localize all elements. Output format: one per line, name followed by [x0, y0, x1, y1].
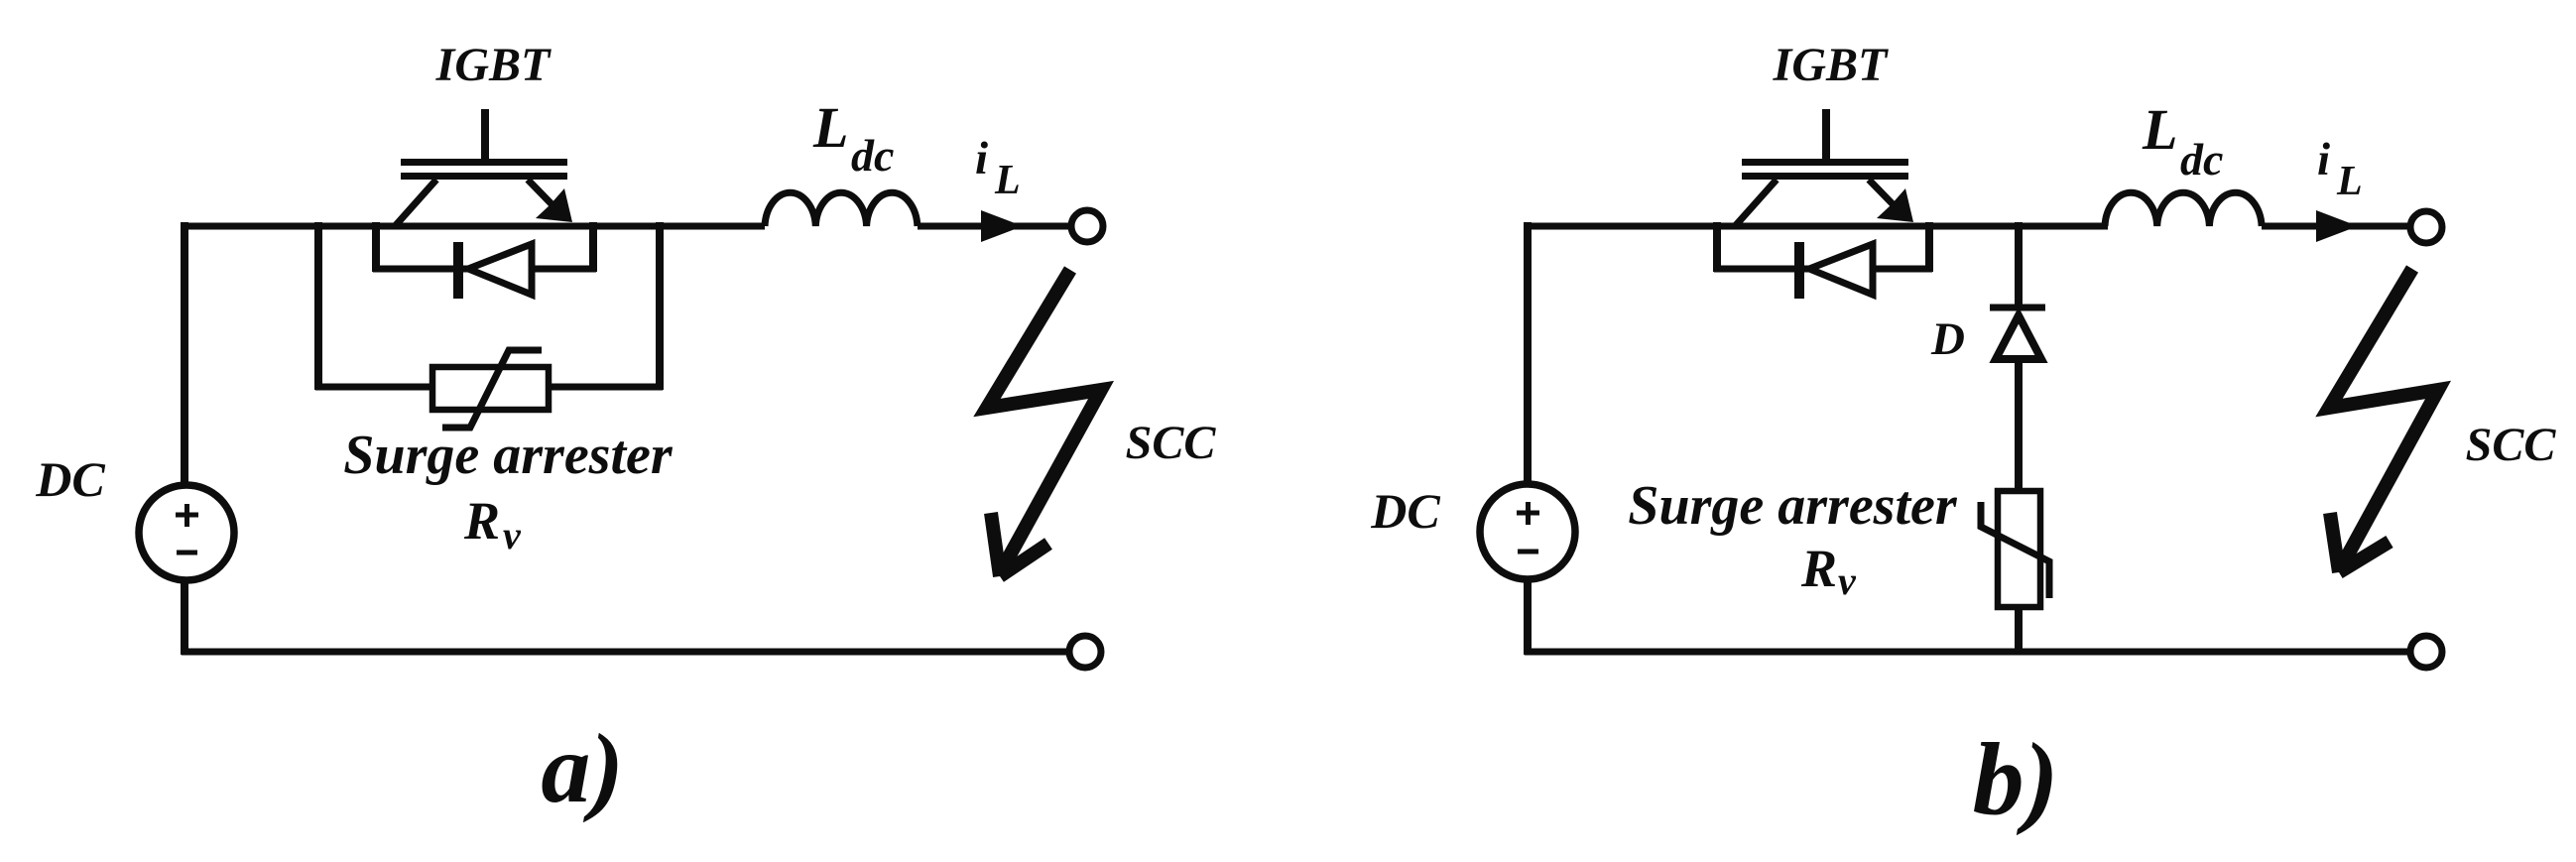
wire: left vertical from bus to DC source b	[1524, 222, 1532, 484]
svg-text:DC: DC	[35, 451, 105, 507]
svg-text:v: v	[503, 513, 522, 557]
wire: left vertical from bus to DC source a	[181, 222, 188, 485]
IGBT Q2 emitter arrowhead b	[1877, 188, 1913, 222]
DC source plus sign a	[176, 504, 198, 527]
svg-text:R: R	[1800, 539, 1837, 598]
svg-text:b): b)	[1973, 722, 2059, 836]
IGBT Q2 gate lead b	[1822, 109, 1830, 162]
svg-text:L: L	[812, 95, 848, 160]
wire: DC source bottom to bottom bus a	[181, 580, 188, 655]
svg-text:DC: DC	[1370, 483, 1440, 539]
wire: surge-arrester loop bottom a	[315, 384, 663, 391]
varistor Rv body a	[432, 367, 549, 410]
wire: surge branch vertical bottom b	[2015, 605, 2023, 655]
svg-text:Surge arrester: Surge arrester	[343, 425, 674, 486]
wire: surge-arrester loop left vertical a	[314, 222, 322, 390]
IGBT Q1 collector lead a	[396, 180, 436, 225]
wire: inductor to terminal b	[2262, 223, 2408, 230]
terminal node bottom b	[2410, 636, 2442, 668]
varistor Rv body b	[1998, 491, 2040, 607]
varistor Rv diagonal stroke a	[442, 350, 542, 428]
diode D1 cathode bar a	[453, 242, 463, 299]
svg-text:SCC: SCC	[2466, 419, 2557, 471]
svg-text:IGBT: IGBT	[435, 39, 552, 91]
svg-text:dc: dc	[2180, 134, 2223, 185]
DC source minus sign a	[177, 551, 197, 555]
wire: inductor to terminal a	[918, 223, 1069, 230]
wire: diode loop bottom b	[1714, 266, 1932, 273]
IGBT Q2 collector lead b	[1736, 180, 1777, 225]
diode D triangle b	[1996, 315, 2041, 359]
IGBT Q1 body bar a	[401, 173, 567, 180]
wire: DC source bottom to bottom bus b	[1524, 579, 1532, 655]
current arrow iL a	[981, 210, 1023, 242]
terminal node top b	[2410, 211, 2442, 243]
DC source V2 circle b	[1480, 484, 1575, 579]
svg-text:dc: dc	[851, 130, 894, 181]
IGBT Q2 emitter lead b	[1869, 180, 1902, 214]
svg-text:L: L	[2336, 159, 2363, 204]
diode D2 (anti-parallel) triangle b	[1809, 244, 1873, 295]
inductor Ldc b	[2105, 192, 2262, 226]
svg-text:a): a)	[541, 713, 623, 823]
svg-text:i: i	[975, 133, 988, 185]
SCC bolt arrowhead a	[991, 513, 1048, 576]
wire: main top bus a	[182, 223, 765, 230]
svg-text:Surge arrester: Surge arrester	[1628, 475, 1958, 537]
wire: bottom bus a	[182, 649, 1069, 656]
terminal node bottom a	[1069, 636, 1101, 668]
inductor Ldc a	[765, 192, 918, 226]
wire: diode loop right vertical a	[589, 222, 597, 272]
SCC lightning bolt b	[2329, 269, 2438, 569]
SCC bolt arrowhead b	[2330, 513, 2390, 572]
wire: main top bus b	[1525, 223, 2108, 230]
IGBT Q2 gate bar b	[1742, 159, 1908, 166]
DC source plus sign b	[1517, 502, 1539, 525]
SCC lightning bolt a	[987, 270, 1101, 573]
svg-text:D: D	[1930, 313, 1965, 365]
wire: surge-arrester loop right vertical a	[656, 222, 664, 390]
svg-text:L: L	[2142, 97, 2177, 162]
varistor Rv diagonal stroke b	[1981, 502, 2049, 598]
svg-text:L: L	[994, 158, 1021, 203]
svg-text:v: v	[1838, 558, 1857, 603]
IGBT Q2 body bar b	[1742, 173, 1908, 180]
DC source V1 circle a	[139, 485, 234, 580]
wire: surge branch vertical middle b	[2015, 357, 2023, 493]
IGBT Q1 gate bar a	[401, 159, 567, 166]
DC source minus sign b	[1518, 550, 1538, 554]
current arrow iL b	[2316, 210, 2358, 242]
svg-text:R: R	[463, 491, 500, 551]
diode D2 cathode bar b	[1794, 242, 1804, 299]
wire: bottom bus b	[1525, 649, 2410, 656]
wire: diode loop left vertical b	[1713, 222, 1721, 272]
IGBT Q1 gate lead a	[481, 109, 489, 162]
wire: diode loop right vertical b	[1925, 222, 1933, 272]
diode D cathode bar b	[1990, 305, 2045, 311]
svg-text:IGBT: IGBT	[1773, 39, 1889, 91]
wire: surge branch vertical top b	[2015, 222, 2023, 306]
wire: diode loop left vertical a	[372, 222, 380, 272]
IGBT Q1 emitter lead a	[528, 180, 561, 214]
svg-text:i: i	[2317, 134, 2330, 185]
IGBT Q1 emitter arrowhead a	[536, 188, 572, 222]
diode D1 (anti-parallel) triangle a	[468, 244, 532, 295]
terminal node top a	[1071, 210, 1103, 242]
wire: diode loop bottom a	[373, 266, 596, 273]
svg-text:SCC: SCC	[1126, 417, 1217, 469]
